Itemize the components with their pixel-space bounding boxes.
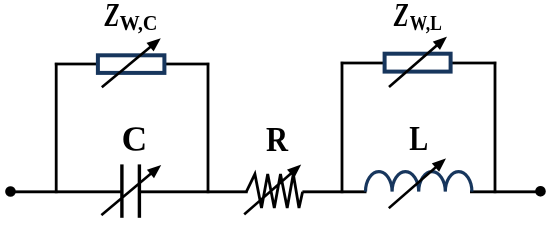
arrow through resistor — [244, 165, 301, 215]
inductor L coils — [366, 172, 472, 192]
label ZW,C — [104, 0, 158, 35]
wire: left loop left vertical — [55, 63, 58, 193]
wire: left loop right vertical — [207, 63, 210, 193]
wire: bottom rail left terminal to capacitor — [10, 190, 121, 193]
resistor R zigzag — [246, 174, 302, 208]
wire: bottom rail resistor to inductor — [302, 190, 366, 193]
label L — [409, 119, 428, 157]
svg-text:L: L — [409, 119, 428, 157]
wire: left loop top right segment — [166, 63, 210, 66]
label ZW,L — [393, 0, 442, 35]
svg-text:Z: Z — [104, 0, 120, 34]
svg-text:W,C: W,C — [120, 10, 158, 35]
wire: right loop top left segment — [341, 62, 385, 65]
label R — [266, 121, 288, 159]
impedance box ZW,C — [98, 55, 164, 73]
impedance box ZW,L — [385, 54, 451, 72]
capacitor C plates — [122, 164, 139, 217]
svg-text:C: C — [122, 119, 148, 159]
svg-text:W,L: W,L — [410, 11, 442, 35]
wire: left loop top left segment — [55, 63, 97, 66]
wire: bottom rail inductor to right terminal — [470, 190, 541, 193]
node: right terminal dot — [535, 186, 546, 197]
arrow through inductor — [389, 158, 446, 208]
node: left terminal dot — [5, 186, 16, 197]
arrow through ZW,L box — [389, 37, 447, 87]
wire: right loop right vertical — [494, 62, 497, 194]
wire: right loop top right segment — [452, 62, 497, 65]
arrow through capacitor — [101, 165, 161, 215]
wire: right loop left vertical — [341, 62, 344, 194]
svg-text:R: R — [266, 121, 288, 159]
svg-text:Z: Z — [393, 0, 409, 34]
arrow through ZW,C box — [102, 38, 161, 87]
wire: bottom rail capacitor to resistor — [141, 190, 248, 193]
